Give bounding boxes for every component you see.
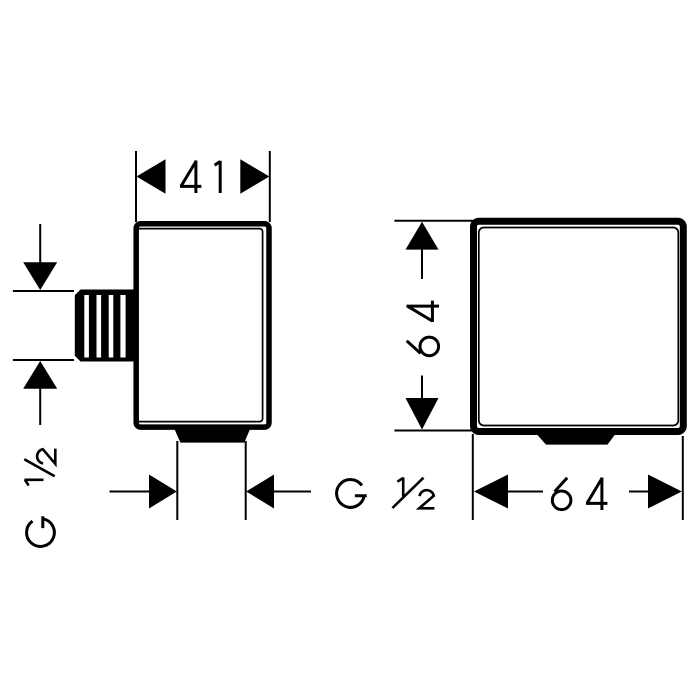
thread dim: up arrow (23, 361, 57, 389)
dimension 41: left extension line (135, 151, 137, 222)
body outline right view (474, 221, 684, 431)
dimension 41: right arrow (240, 159, 269, 193)
bottom dim left view: left line (110, 491, 151, 493)
thread dim: down arrow (23, 262, 57, 290)
dim 64 vertical: upper line (421, 250, 423, 279)
thread dim: rotated label G 1/2 (24, 449, 55, 547)
bottom outlet nipple left view (174, 428, 251, 443)
dimension 41: text 41 (180, 161, 220, 194)
dim 64 horizontal: left line (506, 491, 543, 493)
thread dim: upper extension line (13, 290, 74, 292)
dim 64 vertical: bottom extension line (394, 430, 474, 432)
body outline left view (136, 224, 269, 427)
thread slot 2 (97, 295, 102, 358)
dimension 41: right extension line (269, 151, 271, 222)
bottom outlet nipple right view (534, 431, 619, 445)
thread slot 1 (84, 295, 89, 358)
thread slot 3 (109, 295, 114, 358)
thread slot 4 (120, 295, 125, 358)
dim 64 horizontal: left arrow (474, 475, 508, 509)
thread dim: rotated label fraction slash (24, 459, 54, 476)
dim 64 horizontal: right line (629, 491, 654, 493)
body inner face line right view (479, 228, 679, 426)
thread dim: upper line (39, 224, 41, 263)
bottom dim left view: right arrow pointing left (246, 475, 274, 509)
dim 64 horizontal: right extension line (682, 436, 684, 520)
dim 64 vertical: down arrow (406, 398, 439, 430)
thread dim: lower line (39, 389, 41, 425)
dim 64 horizontal: text 64 (552, 478, 607, 511)
dim 64 vertical: top extension line (394, 220, 474, 222)
bottom dim left view: label G 1/2 (337, 477, 435, 508)
dim 64 horizontal: left extension line (472, 434, 474, 520)
bottom dim left view: right extension line (245, 441, 247, 520)
bottom dim left view: left arrow pointing right (149, 475, 177, 509)
bottom dim left view: left extension line (176, 441, 178, 520)
bottom dim left view: right line (274, 491, 311, 493)
dim 64 vertical: rotated text 64 (407, 301, 440, 356)
thread dim: lower extension line (13, 359, 74, 361)
threaded connector G1/2 (75, 290, 137, 362)
dim 64 vertical: up arrow (406, 222, 439, 250)
dim 64 vertical: lower line (421, 376, 423, 399)
body inner face line left view (137, 229, 263, 422)
bottom dim left view: label fraction slash (392, 478, 423, 508)
dimension 41: left arrow (137, 159, 166, 193)
dim 64 horizontal: right arrow (648, 475, 682, 509)
